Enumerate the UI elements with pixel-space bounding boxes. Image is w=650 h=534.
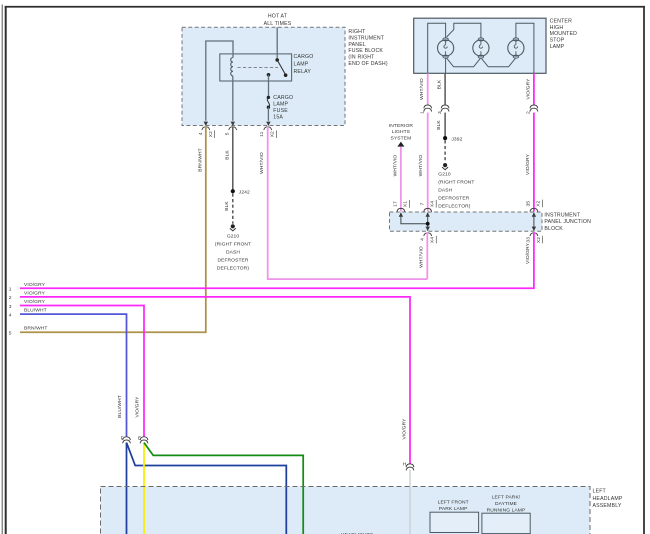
wire: coil top to pin 4 path [206,41,233,121]
svg-text:LAMP: LAMP [294,62,309,68]
svg-text:STOP: STOP [550,38,565,44]
label INTERIOR LIGHTS SYSTEM [389,123,414,142]
svg-text:G210: G210 [227,234,240,240]
connector pin 2 [530,105,538,112]
svg-text:X1: X1 [403,201,409,207]
CHMSL internal wire: bulb3 top to VIO/GRY input [516,23,534,73]
off-page arrow to interior lights system [397,142,404,147]
svg-text:G210: G210 [438,172,451,178]
svg-text:DEFLECTOR): DEFLECTOR) [217,266,249,272]
svg-text:4: 4 [198,132,204,135]
fuse block: RIGHT INSTRUMENT PANEL FUSE BLOCK dashed box [182,27,345,125]
svg-text:LIGHTS: LIGHTS [392,129,411,135]
svg-text:BLK: BLK [436,120,442,130]
svg-text:X4: X4 [430,201,436,207]
svg-text:BRN/WHT: BRN/WHT [24,326,48,332]
svg-text:2: 2 [9,295,12,301]
pin 11 connector arc [264,127,272,130]
svg-text:BLK: BLK [224,201,230,211]
page frame left inner line [5,6,7,534]
svg-text:1: 1 [9,287,12,293]
CHMSL internal wire: bulb1 bottom to BLK output [445,58,447,74]
svg-text:3: 3 [437,111,443,114]
svg-text:VIO/GRY: VIO/GRY [24,282,46,288]
connector H [406,464,414,471]
svg-text:DEFLECTOR): DEFLECTOR) [438,204,470,210]
svg-text:WHT/VIO: WHT/VIO [259,152,265,174]
wire GRN branch from E right and down [144,443,303,534]
CHMSL internal wire: bulb2 bottom to bulb3 bottom [482,58,516,66]
connector pin 3 [441,105,449,112]
svg-text:PANEL: PANEL [348,42,366,48]
wire GRN segment inside headlamp box [302,487,304,534]
svg-text:VIO/GRY: VIO/GRY [24,290,46,296]
svg-text:(IN RIGHT: (IN RIGHT [348,55,375,61]
wire WHT/VIO from pin 11 down then right to junction block pin 4 wire [268,127,428,279]
connector E [140,437,148,444]
svg-text:BLU/WHT: BLU/WHT [117,395,123,418]
relay K1 box: CARGO LAMP RELAY [220,54,292,81]
svg-text:LAMP: LAMP [550,44,565,50]
svg-text:LEFT PARK/: LEFT PARK/ [492,495,521,501]
svg-text:DASH: DASH [438,188,452,194]
relay label [294,54,314,75]
svg-text:4: 4 [419,238,425,241]
svg-text:3: 3 [9,304,12,310]
junction splice dot [426,222,430,226]
wire DK BLU segment inside headlamp box [126,487,128,534]
svg-text:WHT/VIO: WHT/VIO [418,155,424,177]
svg-text:DASH: DASH [226,250,240,256]
svg-text:FUSE BLOCK: FUSE BLOCK [348,48,383,54]
relay switch output contact [267,73,271,77]
relay switch common contact [275,58,279,62]
svg-text:HOT AT: HOT AT [268,14,288,20]
svg-text:J242: J242 [239,189,250,195]
svg-text:VIO/GRY: VIO/GRY [525,242,531,264]
left park/daytime running lamp box [482,513,530,533]
lamp bulb 2 [473,38,489,58]
relay actuation dashed link [238,67,279,69]
splice J242 [231,189,235,193]
headlamp box: LEFT HEADLAMP ASSEMBLY dashed box [101,487,591,534]
svg-text:MOUNTED: MOUNTED [550,31,578,37]
svg-text:ASSEMBLY: ASSEMBLY [593,503,622,509]
CHMSL internal wire: bulb1 top to bulb2 top rail [447,23,481,38]
wire BLK from CHMSL pin 3 [444,73,446,105]
svg-text:INSTRUMENT: INSTRUMENT [348,35,384,41]
svg-text:15A: 15A [273,115,283,121]
label HOT AT ALL TIMES [264,14,292,27]
left edge wire numbers [9,287,12,337]
svg-text:17: 17 [393,201,399,207]
svg-text:7: 7 [420,202,426,205]
svg-text:X2: X2 [270,131,276,137]
svg-text:4: 4 [9,312,12,318]
wire DK BLU branch segment inside headlamp box [285,487,287,534]
wire BLK from pin 5 to J242 [232,127,234,191]
junction block internal wire pin 35 to pin 33 [533,213,535,231]
svg-text:HEADLAMP: HEADLAMP [593,496,623,502]
svg-text:CARGO: CARGO [294,54,314,60]
svg-text:BLOCK: BLOCK [544,226,563,232]
svg-text:END OF DASH): END OF DASH) [348,61,387,67]
junction block pin 4 connector arc (bottom) [424,233,432,236]
pin 4 exit arrowhead [204,122,208,126]
lamp bulb 3 [508,38,524,58]
svg-text:BRN/WHT: BRN/WHT [197,148,203,172]
page frame left outer line [1,5,3,534]
lamp bulb 1 [438,38,454,58]
wire BLK down to J392 [444,113,446,139]
svg-text:5: 5 [225,132,231,135]
svg-text:VIO/GRY: VIO/GRY [525,78,531,100]
svg-text:35: 35 [526,201,532,207]
svg-text:INSTRUMENT: INSTRUMENT [544,212,580,218]
left edge wire labels [24,282,48,332]
svg-text:LAMP: LAMP [273,102,288,108]
svg-text:PARK LAMP: PARK LAMP [439,506,468,512]
junction block internal wire pin 17 to junction [401,213,428,224]
junction block pin 33 connector arc (bottom) [530,233,538,236]
CHMSL box: CENTER HIGH MOUNTED STOP LAMP [414,18,546,73]
left front park lamp box [430,512,479,532]
wire: HOT AT ALL TIMES feed down to relay switch [276,27,278,60]
pin numbers 4 5 11 and X2 labels [198,131,276,137]
svg-text:CENTER: CENTER [550,19,572,25]
wire VIO/GRY down to junction block pin 35 [533,113,535,212]
svg-text:HIGH: HIGH [550,25,564,31]
wire VIO/GRY from junction pin 33 down then left to wire 1 [20,232,534,288]
wire 3 VIO/GRY from left edge down to connector E [20,306,144,438]
junction block internal wire pin 7 to pin 4 [427,213,429,231]
wire WHT below connector H [409,469,411,534]
svg-text:ALL TIMES: ALL TIMES [264,21,292,27]
wire VIO/GRY from CHMSL pin 2 [533,73,535,105]
wire: switch output down to fuse [268,75,270,97]
svg-text:1: 1 [419,111,425,114]
junction block: INSTRUMENT PANEL JUNCTION BLOCK dashed box [390,212,543,231]
svg-text:X2: X2 [208,131,214,137]
svg-text:LEFT: LEFT [593,489,607,495]
svg-text:VIO/GRY: VIO/GRY [24,299,46,305]
svg-text:RELAY: RELAY [294,69,312,75]
svg-text:PANEL JUNCTION: PANEL JUNCTION [544,219,591,225]
svg-text:WHT/VIO: WHT/VIO [419,246,425,268]
page frame top line [5,6,645,8]
ground G210 (left) [230,224,236,231]
svg-text:LEFT FRONT: LEFT FRONT [438,500,469,506]
wire WHT/VIO from CHMSL pin 1 down [427,73,429,105]
CHMSL internal wire: WHT/VIO input to bulb1 top [428,23,446,73]
relay switch NO contact [284,73,288,77]
svg-text:BLU/WHT: BLU/WHT [24,308,47,314]
left park/daytime running lamp label [487,495,526,514]
junction block pin 17 connector arc [397,208,405,211]
svg-text:X2: X2 [536,200,542,206]
wire BLK dashed below J392 [444,140,446,162]
svg-text:FUSE: FUSE [273,108,288,114]
connector pin 1 [424,105,432,112]
svg-text:VIO/GRY: VIO/GRY [525,153,531,175]
wire DK BLU branch from F right and down [127,443,287,534]
svg-text:DEFROSTER: DEFROSTER [438,196,469,202]
svg-text:SYSTEM: SYSTEM [391,135,412,141]
svg-text:VIO/GRY: VIO/GRY [134,396,140,418]
svg-text:DEFROSTER: DEFROSTER [217,258,248,264]
svg-text:F: F [121,436,124,442]
svg-text:2: 2 [526,111,532,114]
svg-text:H: H [403,462,407,468]
svg-text:BLK: BLK [437,79,443,89]
wire DK BLU straight down from connector F [126,443,128,534]
pin 5 exit arrowhead [231,122,235,126]
svg-text:(RIGHT FRONT: (RIGHT FRONT [438,180,474,186]
svg-text:(RIGHT FRONT: (RIGHT FRONT [215,242,251,248]
fuse block label [348,29,387,67]
svg-text:CARGO: CARGO [273,95,293,101]
page frame right line [643,6,645,534]
wire YEL straight down from connector E [143,443,145,534]
relay switch blade [277,60,285,75]
wire WHT segment inside headlamp box [409,487,411,534]
left front park lamp label [438,500,469,513]
connector F [123,437,131,444]
junction block pin 35 connector arc [530,208,538,211]
wire YEL segment inside headlamp box [143,487,145,534]
wire WHT/VIO down to junction block pin 7 [427,113,429,212]
ground G210 (right) [442,163,448,170]
svg-text:INTERIOR: INTERIOR [389,123,414,129]
fuse F1: CARGO LAMP FUSE 15A [267,96,270,99]
wire: coil bottom down to pin 5 [232,76,234,121]
svg-text:X4: X4 [430,237,436,243]
junction block pin 7 connector arc [424,208,432,211]
pin 5 connector arc [229,127,237,130]
relay coil [231,58,233,76]
wire BRN/WHT from pin 4 down and left to wire 5 [20,127,206,332]
svg-text:VIO/GRY: VIO/GRY [401,418,407,440]
wire WHT/VIO from junction pin 4 down then left [426,232,428,279]
svg-text:J392: J392 [451,136,462,142]
svg-text:X2: X2 [536,237,542,243]
pin 11 exit arrowhead [266,122,270,126]
svg-text:WHT/VIO: WHT/VIO [392,155,398,177]
wire 2 VIO/GRY from left edge to headlamp drop [20,297,410,464]
svg-text:5: 5 [9,331,12,337]
svg-text:BLK: BLK [224,150,230,160]
svg-text:DAYTIME: DAYTIME [495,501,518,507]
wire WHT/VIO from arrow down to junction block pin 17 [400,147,402,212]
svg-text:11: 11 [259,131,265,136]
wire 4 BLU/WHT from left edge down to connector F [20,314,127,437]
svg-text:33: 33 [525,237,531,243]
CHMSL internal wire: bulb1 bottom to bulb2 bottom [446,58,480,67]
wire: fuse down to pin 11 [267,107,269,121]
wire BLK dashed below J242 [232,193,234,223]
pin 4 connector arc [202,127,210,130]
svg-text:RIGHT: RIGHT [348,29,366,35]
svg-text:WHT/VIO: WHT/VIO [419,78,425,100]
splice J392 [443,136,447,140]
